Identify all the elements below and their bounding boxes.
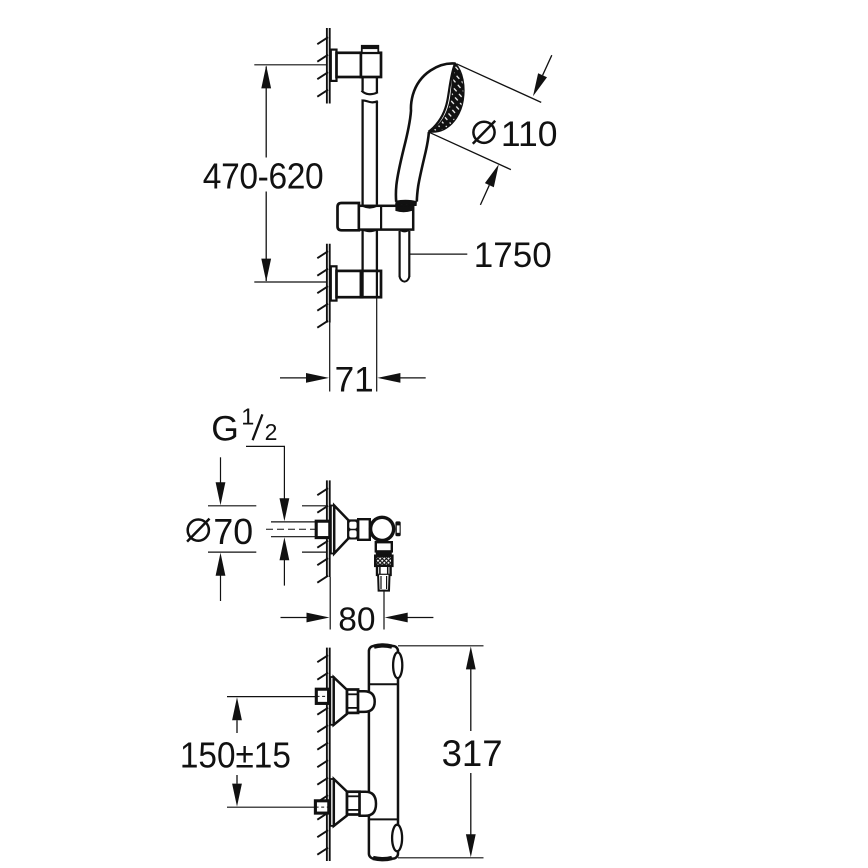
svg-text:1750: 1750 [474, 236, 552, 275]
svg-text:2: 2 [265, 419, 278, 445]
dim 80 dimension line with arrows [281, 617, 307, 619]
dim 317 ticks [398, 645, 484, 647]
handle hose nut (dark) [395, 200, 417, 212]
bottom inlet escutcheon base [330, 779, 334, 826]
dim O70 ticks [208, 505, 256, 507]
union hex [348, 519, 359, 539]
hose connector [377, 566, 391, 575]
side knob top [393, 652, 402, 678]
bottom bracket rail block [361, 271, 381, 297]
hose end [378, 575, 389, 591]
wall [326, 648, 328, 861]
dim 470-620 top extension line [254, 64, 326, 66]
wall [326, 480, 328, 577]
escutcheon cone [334, 506, 348, 554]
svg-text:470-620: 470-620 [203, 156, 323, 197]
handle cone seen in holder (dark crescent) [395, 204, 412, 212]
hose below holder [399, 231, 401, 277]
body dark cap bottom [373, 858, 392, 859]
top inlet s-union hex [347, 690, 358, 713]
rail break wave lower [362, 100, 378, 102]
dim 150+-15 arrows [232, 697, 242, 720]
wall hatch ticks [317, 37, 328, 96]
valve knob (circle) [369, 516, 396, 543]
body dark cap top [374, 645, 392, 646]
svg-text:G: G [211, 408, 239, 448]
knob tab [395, 521, 400, 536]
label O70 diameter symbol [188, 520, 209, 541]
bottom inlet s-union hex [347, 792, 360, 815]
top bracket rail block [361, 53, 381, 77]
wall hatch ticks [317, 251, 328, 328]
top bracket arm [337, 53, 363, 77]
spray face inner rim line [429, 64, 455, 132]
dim 150+-15 extension ticks [227, 696, 315, 698]
rail break wave upper [362, 91, 378, 95]
thermostat body bar [369, 646, 398, 859]
wall hatch ticks [317, 488, 328, 583]
hose union nut (knurled) [375, 556, 392, 566]
shower head body outline [396, 63, 456, 201]
dim 71 left extension [329, 323, 331, 392]
bottom inlet escutcheon cone [334, 779, 347, 826]
dim 71 right extension [376, 297, 378, 391]
svg-text:70: 70 [213, 512, 253, 552]
svg-text:1: 1 [241, 403, 254, 429]
label O110 diameter symbol [473, 122, 494, 143]
shower head spray face band (dense hatch) [429, 64, 464, 132]
dim O110 arrow upper [543, 55, 552, 75]
supply pipe nipple [271, 521, 316, 523]
bottom bracket escutcheon [331, 266, 337, 300]
slider holder body [359, 206, 413, 230]
valve body neck [358, 519, 370, 540]
dim 80 extensions [329, 577, 331, 630]
top inlet escutcheon base [330, 677, 333, 725]
svg-text:110: 110 [501, 114, 558, 154]
rail upper segment [361, 77, 363, 91]
dim 71 dimension line with arrows [280, 377, 307, 379]
rail top cap screw [362, 46, 379, 53]
dim O110 extension line B [429, 132, 511, 169]
thermostat top inlet: hex nut at wall [316, 689, 328, 703]
G 1/2 leader and arrows [246, 446, 284, 499]
slider holder knob [338, 203, 359, 230]
top inlet union nut [358, 691, 375, 712]
wall hatch ticks [317, 655, 328, 855]
svg-text:150±15: 150±15 [180, 734, 291, 775]
wall [326, 244, 328, 323]
top inlet escutcheon cone [334, 677, 347, 725]
dim 470-620 dimension line with arrows [265, 67, 267, 158]
svg-text:80: 80 [338, 602, 375, 639]
shower handle right edge [417, 132, 429, 202]
hex nut at wall [316, 521, 330, 537]
dim 1750 leader line [409, 253, 467, 255]
dim O70 arrows [220, 457, 222, 483]
dim O110 arrow lower [480, 185, 489, 205]
dim 470-620 bottom extension line [254, 281, 326, 283]
top bracket escutcheon [331, 50, 337, 81]
rail through bottom block [362, 272, 364, 296]
dim O110 extension line A [457, 64, 542, 103]
wall [326, 28, 328, 104]
dim 317 dimension line with arrows [466, 646, 476, 669]
svg-text:317: 317 [442, 732, 503, 774]
rail lower segment [361, 230, 363, 272]
bottom bracket arm [337, 271, 363, 297]
svg-text:71: 71 [335, 360, 374, 399]
rail middle segment [361, 101, 363, 206]
outlet neck [376, 542, 392, 551]
thermostat bottom inlet: hex nut at wall [315, 801, 328, 813]
side knob bottom [392, 825, 402, 852]
escutcheon base ring [331, 506, 334, 554]
bottom inlet union nut [360, 792, 376, 816]
